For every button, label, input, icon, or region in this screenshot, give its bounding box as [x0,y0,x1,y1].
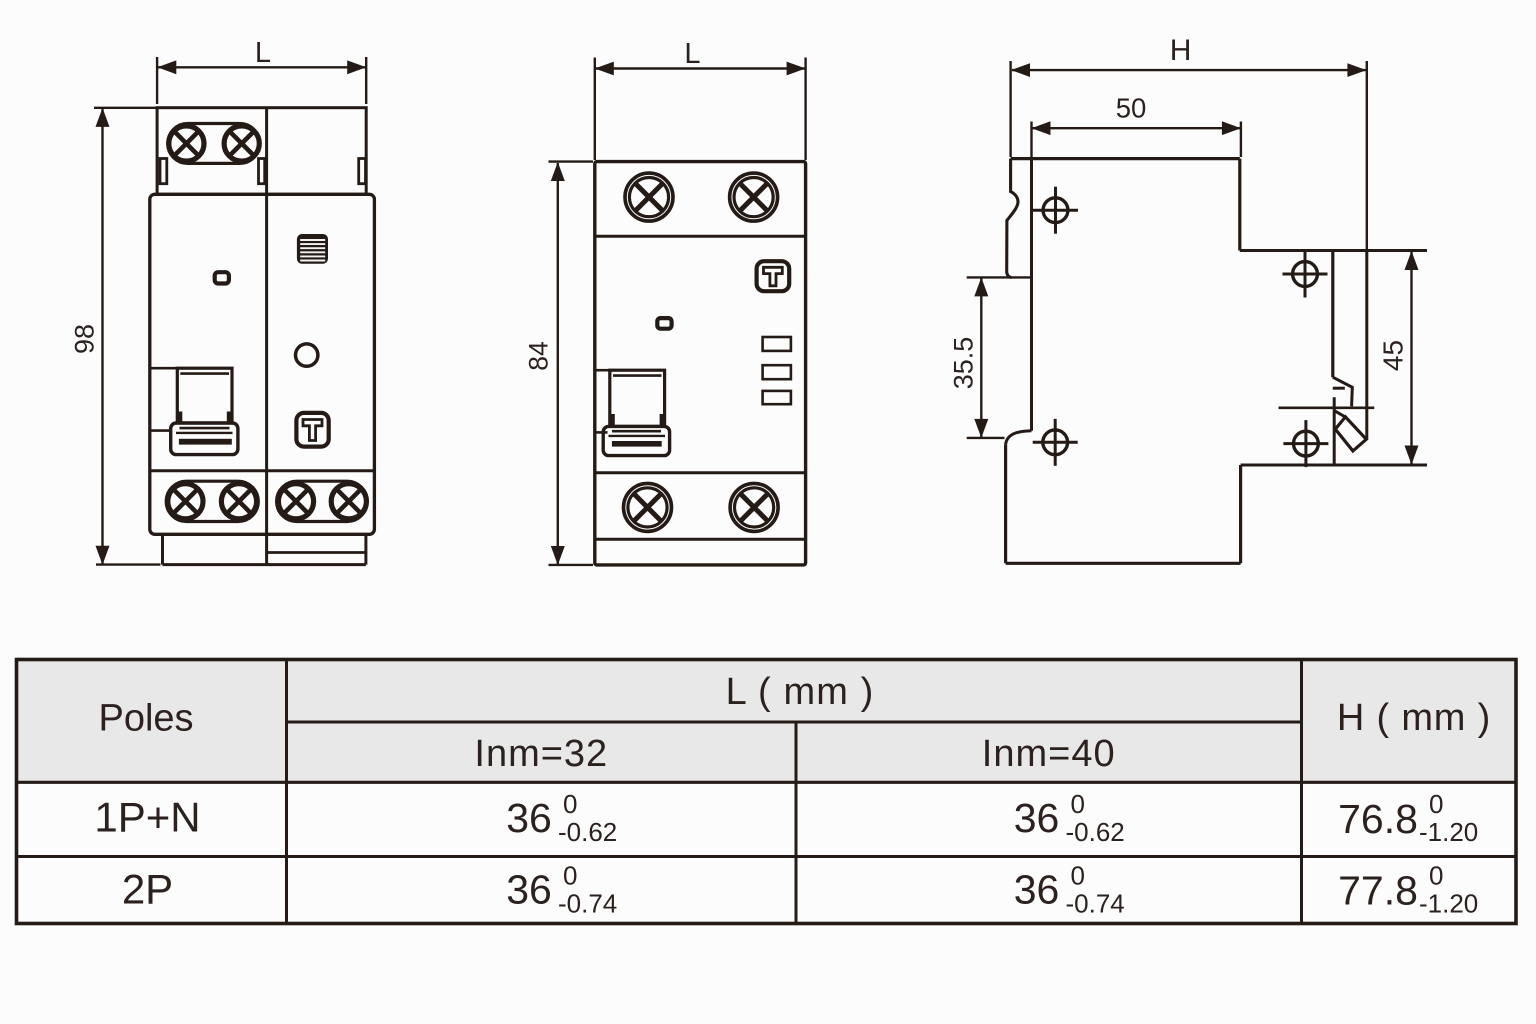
side view: top step line and 45-dim extension [1240,249,1427,252]
side view: rear face [1331,251,1334,378]
centre view: test button T [757,261,790,291]
side view: bottom edge [1006,562,1241,565]
svg-text:-1.20: -1.20 [1419,817,1478,847]
front view: indicator circle [296,344,318,366]
svg-text:-0.62: -0.62 [1066,817,1125,847]
svg-text:36: 36 [1014,867,1060,913]
side view: mounting hole top right [1283,251,1328,298]
centre view: rating label boxes [763,337,791,404]
svg-text:-0.74: -0.74 [1066,889,1125,919]
svg-text:98: 98 [69,324,99,354]
centre view: bottom screw left [624,483,672,531]
side view: bottom step line and 45-dim extension [1241,464,1427,467]
svg-text:-1.20: -1.20 [1419,889,1478,919]
front view: top terminal stadium [168,124,260,164]
centre view: skirt line [595,538,806,541]
side view: front face upper edge with latch bump [1007,159,1018,278]
dimension 35.5 (side view) [949,277,1032,438]
svg-text:0: 0 [1429,789,1443,819]
centre view: toggle handle [595,370,670,455]
side view: clip release tab [1334,411,1366,451]
front view: bottom skirt [163,536,366,565]
svg-text:2P: 2P [122,866,173,913]
front view: module divider [265,194,268,564]
side view: rear claw edge [1365,251,1368,440]
side view: recessed front face [1030,159,1033,431]
centre view: top screws separator [595,235,806,238]
svg-text:1P+N: 1P+N [94,793,200,840]
side view: top section right edge [1238,159,1241,251]
side view: mounting hole bottom left [1033,419,1078,466]
svg-text:36: 36 [1014,795,1060,841]
centre view: body outline [595,162,806,565]
dimension L (front view) [157,37,366,104]
svg-text:36: 36 [506,795,552,841]
front view: bottom terminal separator [150,469,375,472]
centre view: bottom screw right [730,483,778,531]
svg-text:35.5: 35.5 [949,337,979,390]
dimension 84 (centre view) [524,162,594,565]
front view: top terminal screw right [224,126,259,161]
dimension 45 (side view) [1377,251,1418,465]
svg-text:L: L [684,38,700,70]
svg-text:Inm=32: Inm=32 [474,733,608,775]
centre view: indicator window [657,318,671,329]
svg-text:0: 0 [1429,861,1443,891]
svg-text:0: 0 [563,789,577,819]
svg-text:84: 84 [524,341,554,370]
front view: bottom stadium right [277,481,368,521]
front view: top terminal screw left [169,126,204,161]
front view: top terminal block outline [157,108,366,195]
svg-text:Inm=40: Inm=40 [982,733,1116,775]
front view: vent grille [297,234,328,264]
table row 1 value Inm=32 [506,789,617,847]
side view: mounting hole bottom right [1283,420,1328,467]
dimension H (side view) [1011,34,1367,251]
svg-text:Poles: Poles [98,697,193,739]
front view: toggle handle [150,368,238,454]
svg-text:76.8: 76.8 [1338,796,1418,842]
svg-text:L: L [255,37,271,69]
side view: top edge [1011,157,1240,160]
dimension 98 (front view) [69,108,160,565]
side view: lower rear edge [1239,465,1242,563]
svg-text:-0.62: -0.62 [558,817,617,847]
centre view: bottom terminal separator [595,471,806,474]
front view: mounting clip tabs [160,159,366,184]
svg-text:45: 45 [1377,340,1408,371]
dimension 50 (side view) [1032,93,1241,158]
centre view: top screw left [625,173,673,221]
dimension L (centre view) [595,38,806,160]
side view: DIN rail lower line [1279,406,1375,409]
side view: DIN hook [1333,377,1353,463]
svg-text:0: 0 [1071,789,1085,819]
table row 1 value H [1338,789,1478,847]
table row 1 value Inm=40 [1014,789,1125,847]
front view: main body outline [150,194,375,534]
svg-text:77.8: 77.8 [1338,868,1418,914]
svg-text:0: 0 [1071,861,1085,891]
side view: lower front edge [1004,444,1007,563]
front view: indicator window left module [215,272,229,283]
table row 2 value Inm=32 [506,861,617,919]
table row 2 value Inm=40 [1014,861,1125,919]
table header background [17,660,1517,783]
front view: bottom screws [168,484,367,519]
centre view: top screw right [730,173,778,221]
svg-text:H: H [1170,34,1192,67]
svg-text:L ( mm ): L ( mm ) [726,671,875,713]
svg-text:50: 50 [1116,93,1147,124]
table grid [17,660,1517,924]
svg-text:-0.74: -0.74 [558,889,617,919]
table row 2 value H [1338,861,1478,919]
side view: mounting hole top left [1033,187,1078,234]
front view: test button T [296,413,328,447]
svg-text:36: 36 [506,867,552,913]
svg-text:0: 0 [563,861,577,891]
svg-text:H ( mm ): H ( mm ) [1337,697,1491,739]
side view: front recess fillet [1006,431,1032,445]
front view: bottom stadium left [166,481,258,521]
